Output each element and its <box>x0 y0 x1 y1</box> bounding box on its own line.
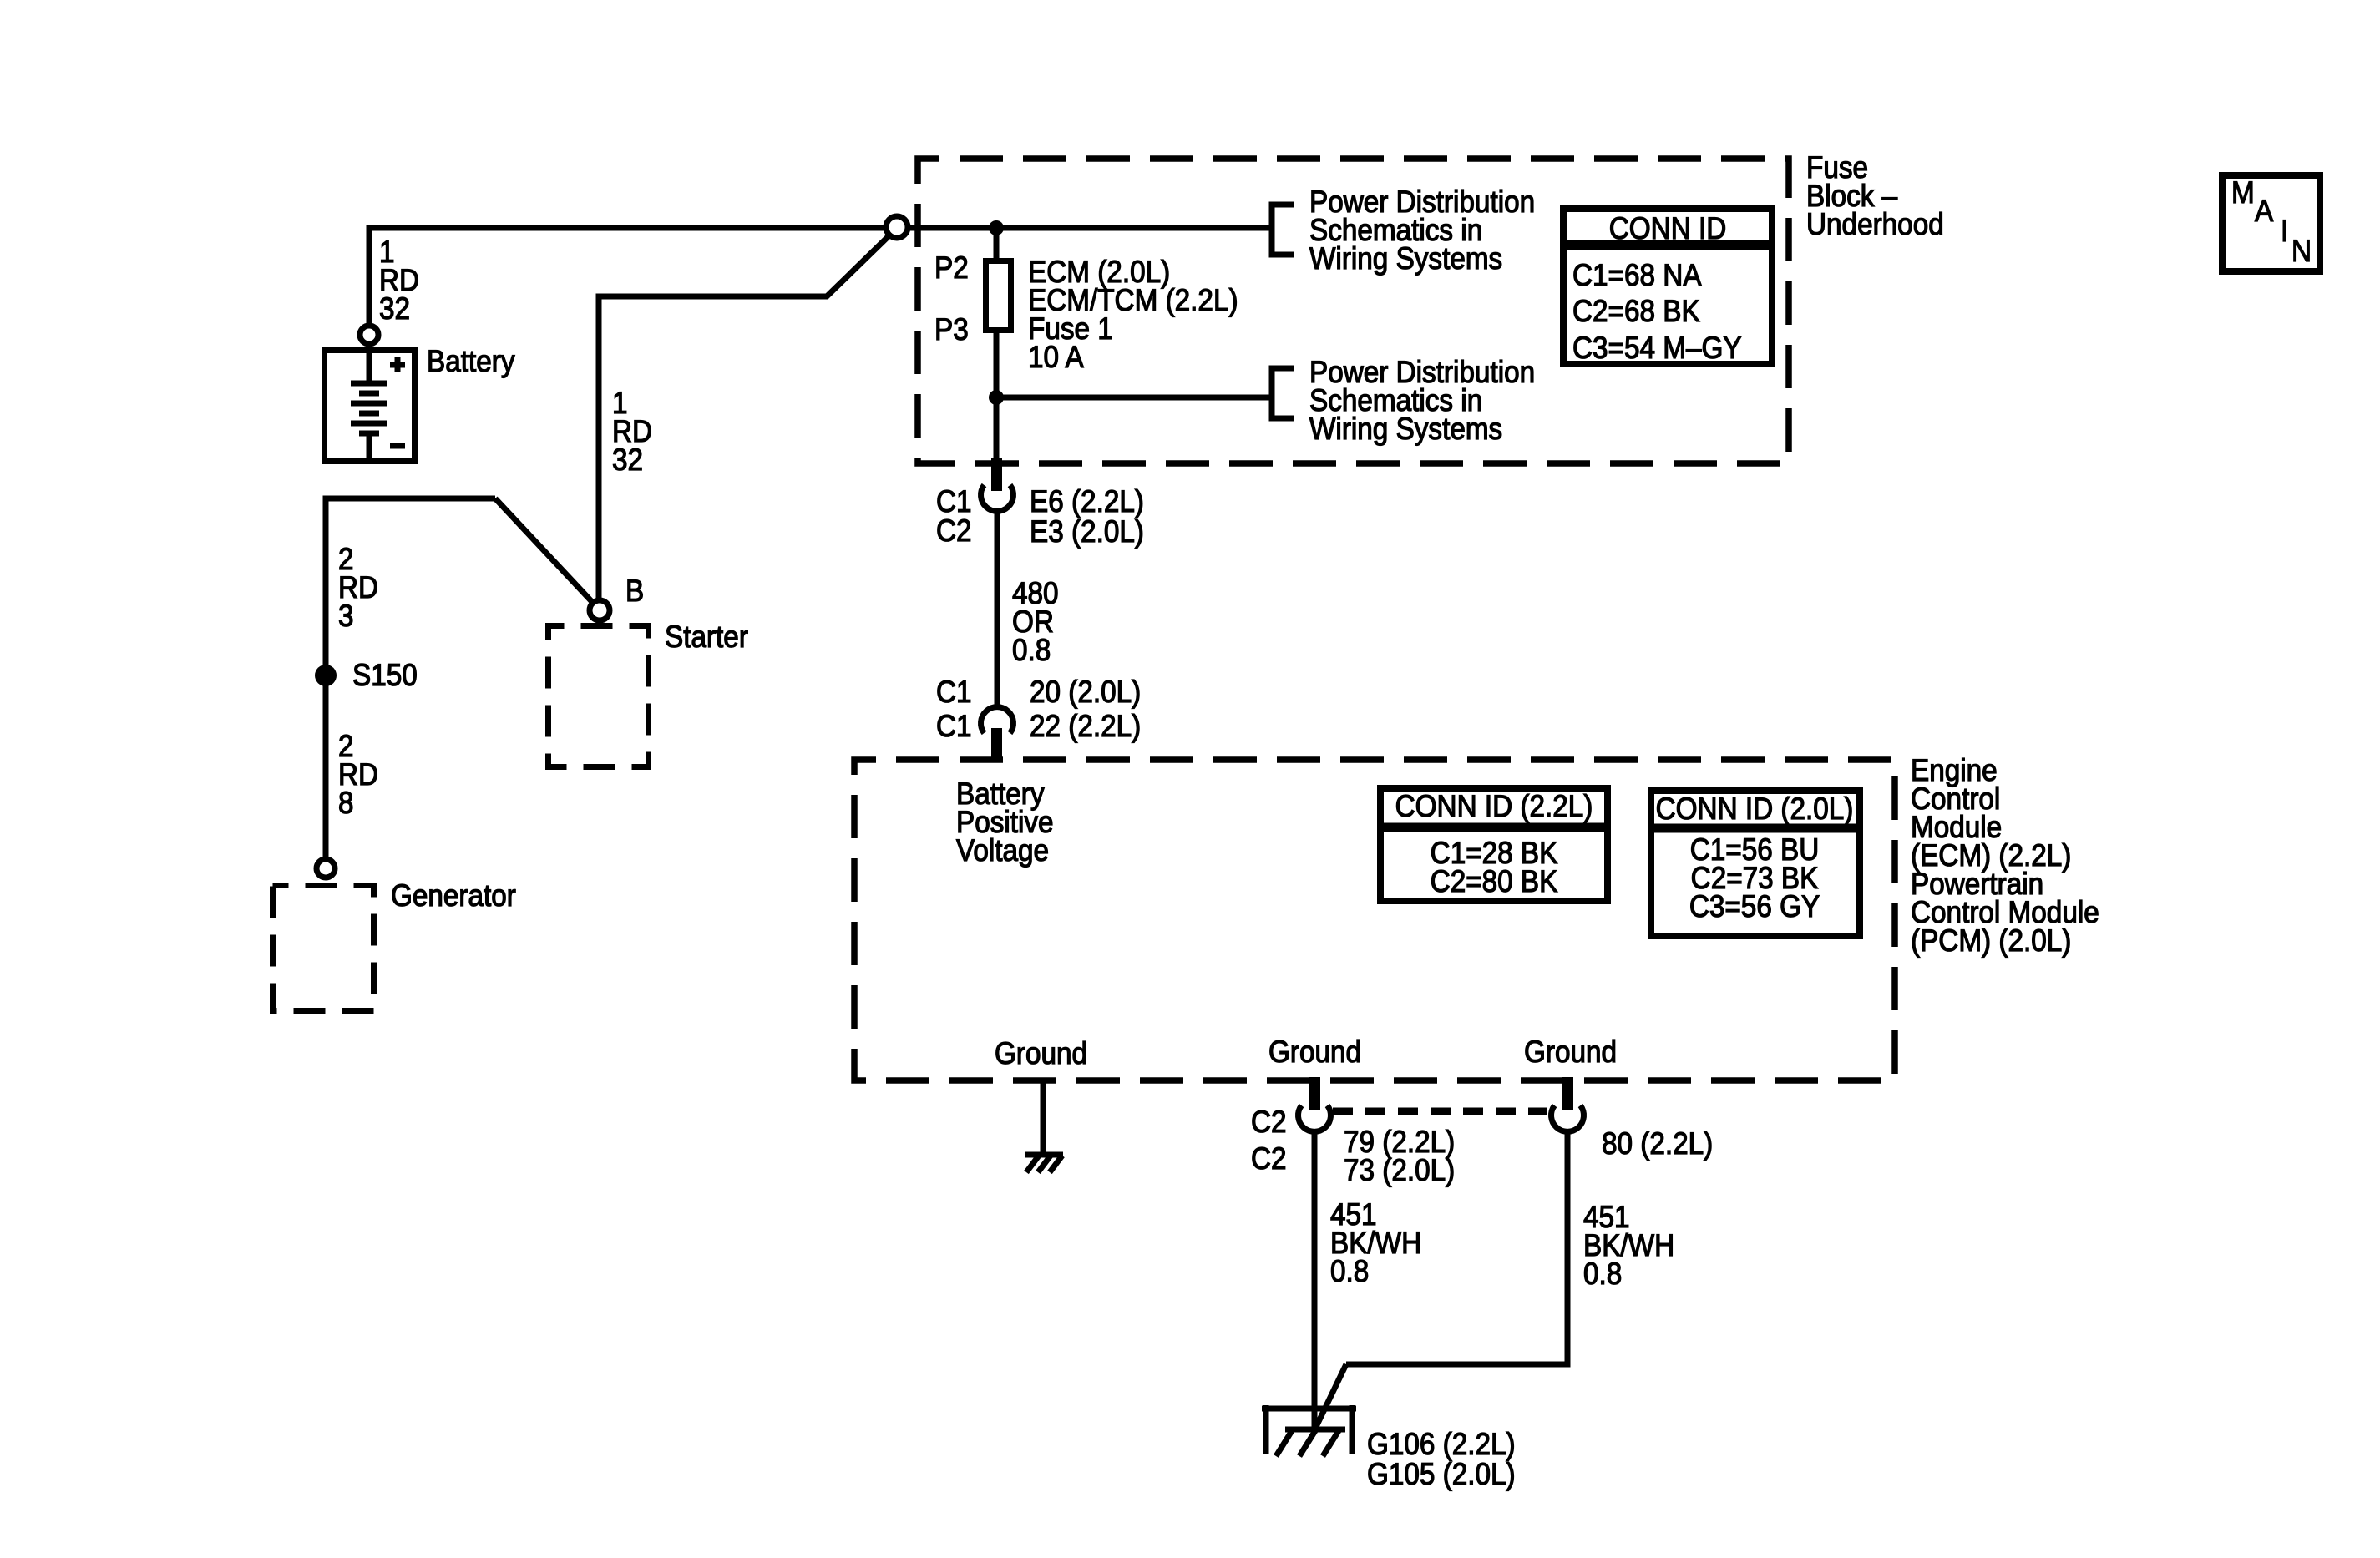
svg-text:E3 (2.0L): E3 (2.0L) <box>1030 514 1144 549</box>
junction dot below fuse <box>989 390 1004 405</box>
wire: fuse block to ECM battery feed <box>995 510 1000 710</box>
svg-text:C1: C1 <box>936 675 972 709</box>
svg-text:CONN ID (2.2L): CONN ID (2.2L) <box>1395 789 1593 823</box>
svg-text:73 (2.0L): 73 (2.0L) <box>1344 1153 1455 1187</box>
chassis ground symbol G106/G105 <box>1262 1405 1356 1454</box>
battery plus mark <box>390 357 405 372</box>
svg-text:C2: C2 <box>936 513 972 548</box>
connector 80 pin (male) <box>1562 1077 1573 1110</box>
svg-text:P2: P2 <box>934 250 969 285</box>
svg-text:Starter: Starter <box>665 620 748 654</box>
svg-text:Battery: Battery <box>427 344 515 378</box>
wire: 451 BK/WH left leg <box>1312 1131 1318 1430</box>
MAIN page reference box <box>2222 175 2320 271</box>
svg-text:0.8: 0.8 <box>1012 633 1051 667</box>
svg-text:80 (2.2L): 80 (2.2L) <box>1602 1126 1713 1161</box>
svg-text:C2: C2 <box>1251 1105 1287 1139</box>
connector C2/C2 socket arc <box>1299 1105 1331 1131</box>
generator component dashed box <box>273 886 374 1011</box>
junction splice S (open circle) on battery feed <box>886 216 908 238</box>
svg-text:0.8: 0.8 <box>1583 1257 1622 1291</box>
svg-text:C1: C1 <box>936 709 972 743</box>
svg-text:Voltage: Voltage <box>956 833 1049 868</box>
CONN ID (2.2L) table <box>1380 788 1608 901</box>
svg-text:22 (2.2L): 22 (2.2L) <box>1030 709 1141 743</box>
splice S150 (solid dot) <box>315 665 337 686</box>
svg-text:C2: C2 <box>1251 1141 1287 1176</box>
fuse ECM/TCM Fuse 1 10A (element box) <box>986 261 1011 331</box>
dashed connector link line <box>1333 1108 1547 1115</box>
svg-text:Ground: Ground <box>1268 1034 1361 1069</box>
svg-text:E6 (2.2L): E6 (2.2L) <box>1030 484 1144 518</box>
chassis ground symbol (left) <box>1025 1155 1063 1172</box>
battery component box <box>325 351 415 462</box>
svg-text:Wiring Systems: Wiring Systems <box>1309 412 1502 446</box>
battery minus mark <box>390 443 405 449</box>
connector C1/C1 socket arc (facing down) <box>981 707 1014 733</box>
wire: S150 to generator terminal <box>323 675 329 859</box>
svg-text:N: N <box>2291 234 2312 268</box>
wire: branch to lower off-page bracket <box>996 395 1272 401</box>
svg-text:10 A: 10 A <box>1028 340 1084 374</box>
generator output terminal ring <box>316 859 335 878</box>
svg-text:(PCM) (2.0L): (PCM) (2.0L) <box>1911 923 2071 958</box>
svg-text:20 (2.0L): 20 (2.0L) <box>1030 675 1141 709</box>
svg-text:B: B <box>625 574 644 608</box>
battery cell plates <box>351 350 387 461</box>
starter component dashed box <box>549 626 649 767</box>
connector C2/C2 pin (male) <box>1309 1077 1320 1110</box>
off-page connector bracket (lower power distribution) <box>1272 368 1294 418</box>
svg-text:C2=80 BK: C2=80 BK <box>1431 864 1558 898</box>
svg-text:Underhood: Underhood <box>1806 207 1944 241</box>
svg-text:C3=56 GY: C3=56 GY <box>1689 889 1820 923</box>
wire: splice branch down to starter B terminal <box>599 235 890 599</box>
wire: fuse feed down <box>994 228 1000 461</box>
svg-text:C3=54 M–GY: C3=54 M–GY <box>1572 331 1742 365</box>
svg-text:32: 32 <box>612 443 643 477</box>
svg-text:I: I <box>2281 214 2288 248</box>
svg-text:0.8: 0.8 <box>1330 1254 1369 1288</box>
CONN ID table (fuse block underhood) <box>1563 209 1772 364</box>
svg-text:C1=68 NA: C1=68 NA <box>1572 258 1702 292</box>
svg-text:Wiring Systems: Wiring Systems <box>1309 241 1502 276</box>
svg-text:32: 32 <box>379 291 410 326</box>
wire: left ground pigtail <box>1041 1080 1046 1155</box>
connector C1/C2 pin (male) <box>991 458 1002 491</box>
svg-text:Generator: Generator <box>391 878 516 913</box>
svg-text:G105 (2.0L): G105 (2.0L) <box>1367 1457 1516 1491</box>
svg-text:A: A <box>2255 194 2274 228</box>
off-page connector bracket (upper power distribution) <box>1272 205 1294 255</box>
svg-text:G106 (2.2L): G106 (2.2L) <box>1367 1427 1516 1461</box>
wire: 451 BK/WH right leg <box>1346 1131 1567 1364</box>
wire: generator net horizontal + diagonal to starter B <box>326 498 495 677</box>
fuse block underhood dashed box <box>918 159 1789 463</box>
wire: battery positive to fuse block feed <box>369 228 1272 324</box>
CONN ID (2.0L) table <box>1651 791 1860 936</box>
svg-text:CONN ID (2.0L): CONN ID (2.0L) <box>1656 792 1854 826</box>
svg-text:Ground: Ground <box>995 1036 1087 1070</box>
svg-text:M: M <box>2231 175 2255 210</box>
svg-text:C2=68 BK: C2=68 BK <box>1572 294 1700 328</box>
svg-text:8: 8 <box>338 786 354 820</box>
svg-text:Ground: Ground <box>1524 1034 1617 1069</box>
engine control module dashed box <box>854 760 1895 1080</box>
starter B terminal ring <box>590 600 610 620</box>
connector 80 socket arc <box>1552 1105 1584 1131</box>
svg-text:3: 3 <box>338 599 354 633</box>
svg-text:CONN ID: CONN ID <box>1609 211 1727 245</box>
connector C1/C2 socket arc <box>981 485 1014 511</box>
connector C1/C1 pin (male) <box>991 728 1002 761</box>
svg-text:S150: S150 <box>352 658 418 692</box>
battery positive terminal ring <box>360 326 378 344</box>
svg-text:P3: P3 <box>934 312 969 347</box>
junction dot at fuse top <box>989 220 1004 235</box>
